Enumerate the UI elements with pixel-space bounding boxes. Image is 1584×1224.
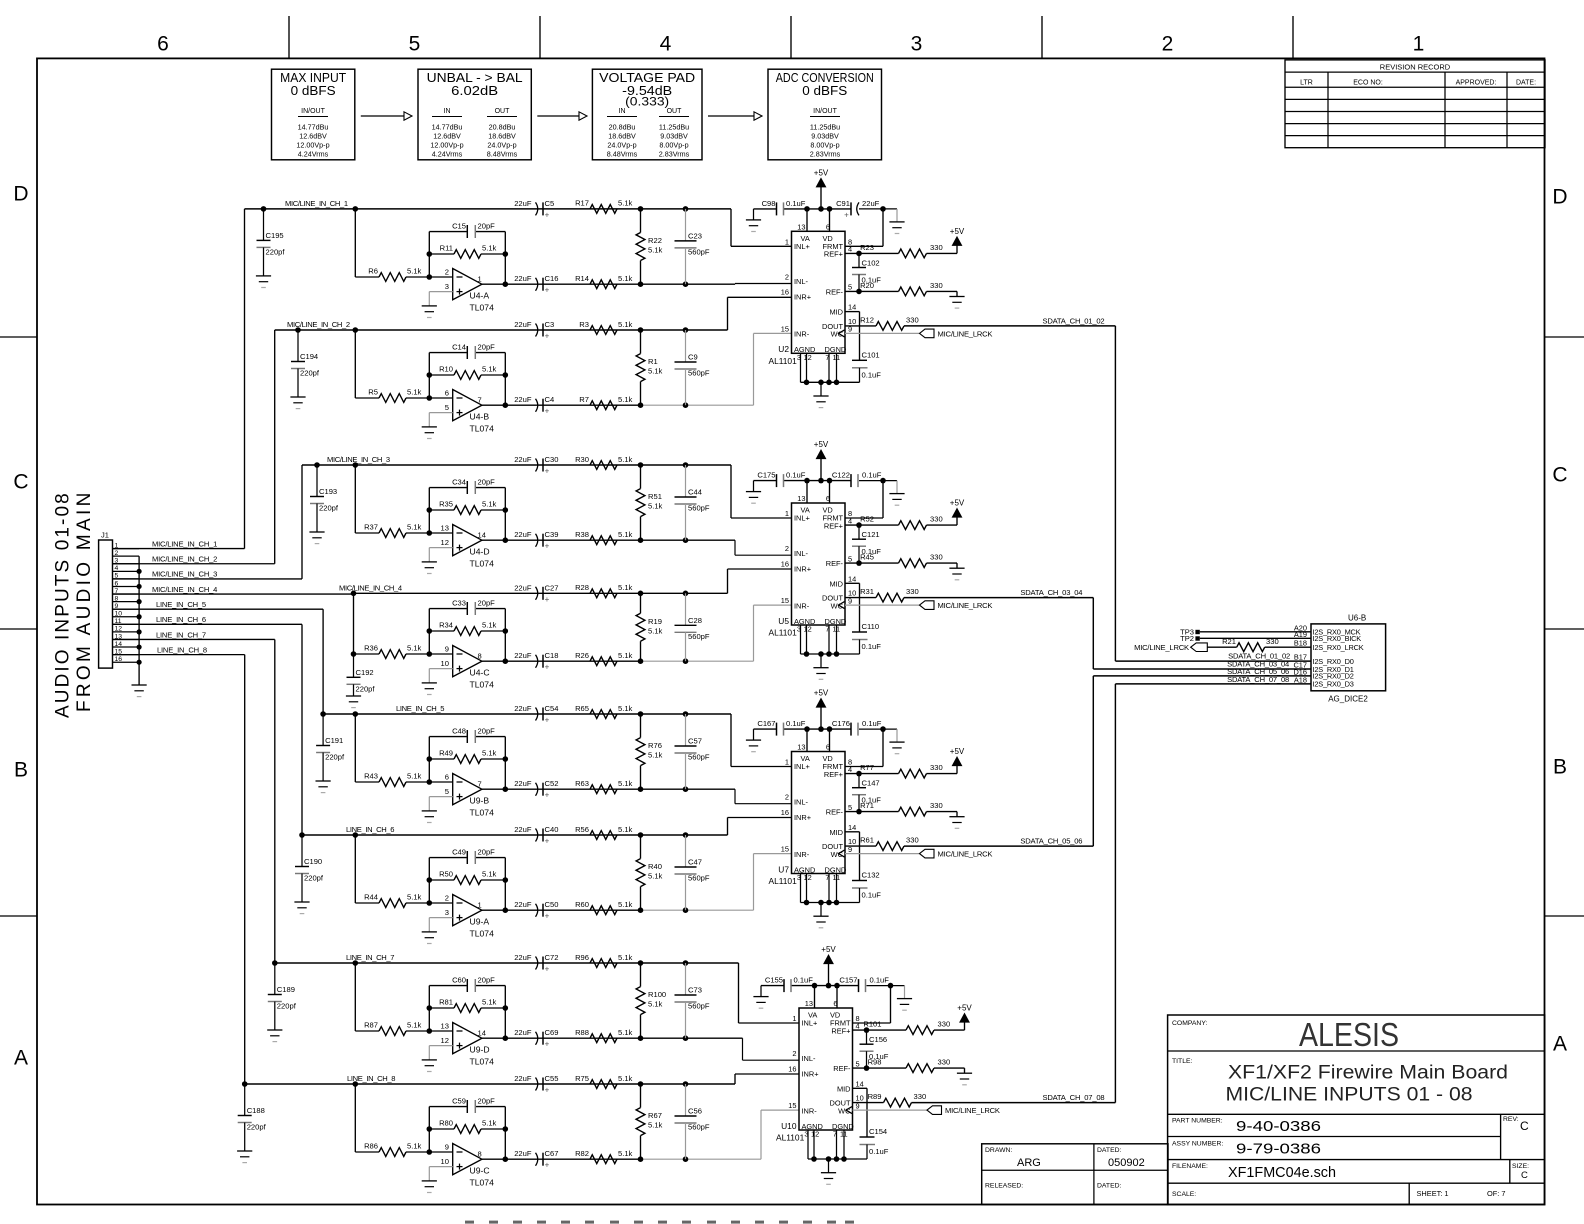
svg-text:AUDIO INPUTS 01-08: AUDIO INPUTS 01-08 — [53, 491, 74, 718]
resistor R10 5.1k — [427, 372, 433, 378]
svg-text:LINE_IN_CH_5: LINE_IN_CH_5 — [156, 600, 206, 609]
svg-text:24.0Vp-p: 24.0Vp-p — [487, 141, 516, 150]
ground at U4-C plus input — [422, 682, 437, 684]
svg-text:050902: 050902 — [1108, 1157, 1145, 1169]
capacitor C121 0.1uF — [858, 525, 860, 539]
svg-text:8.00Vp-p: 8.00Vp-p — [810, 141, 839, 150]
clock wedge WC pin U10 — [846, 1107, 852, 1114]
svg-text:U4-D: U4-D — [470, 547, 490, 557]
resistor R45 330 — [866, 562, 899, 564]
wire C98 to ground — [753, 209, 755, 220]
wire feedback loop R80 — [427, 1149, 433, 1155]
svg-text:C192: C192 — [356, 668, 374, 677]
svg-text:LINE_IN_CH_8: LINE_IN_CH_8 — [157, 645, 207, 654]
svg-text:R35: R35 — [439, 500, 453, 509]
svg-text:R7: R7 — [579, 395, 589, 404]
svg-text:C73: C73 — [688, 986, 702, 995]
capacitor C193 220pf — [316, 465, 318, 497]
svg-text:ARG: ARG — [1017, 1157, 1041, 1169]
block VOLTAGE PAD — [592, 69, 702, 160]
svg-text:COMPANY:: COMPANY: — [1172, 1020, 1207, 1027]
svg-text:C55: C55 — [545, 1074, 559, 1083]
wire SDATA_CH_05_06 into U6-B — [1093, 675, 1311, 677]
svg-text:REF-: REF- — [833, 1064, 851, 1073]
svg-text:0.1uF: 0.1uF — [862, 642, 882, 651]
svg-text:13: 13 — [797, 494, 805, 503]
wire drop LINE_IN_CH_5 to opamp — [353, 711, 359, 717]
svg-text:R14: R14 — [575, 274, 589, 283]
svg-text:DATED:: DATED: — [1097, 1147, 1122, 1154]
junction shunt bottom — [638, 402, 644, 408]
svg-text:INR-: INR- — [794, 330, 810, 339]
svg-text:R56: R56 — [575, 825, 589, 834]
wire op-amp U9-C plus input to ground — [429, 1166, 452, 1168]
svg-text:0.1uF: 0.1uF — [786, 719, 806, 728]
junction shunt bottom — [638, 658, 644, 664]
svg-text:+: + — [545, 332, 550, 341]
svg-text:14: 14 — [478, 531, 486, 540]
svg-text:3: 3 — [911, 33, 923, 56]
svg-text:C193: C193 — [319, 487, 337, 496]
svg-text:U4-A: U4-A — [470, 291, 490, 301]
ground below U5 — [813, 667, 828, 669]
svg-text:13: 13 — [441, 524, 449, 533]
wire REF- — [845, 562, 866, 564]
svg-text:6.02dB: 6.02dB — [451, 83, 498, 98]
svg-text:+: + — [545, 1161, 550, 1170]
svg-text:MIC/LINE INPUTS 01 - 08: MIC/LINE INPUTS 01 - 08 — [1226, 1085, 1473, 1106]
svg-text:C122: C122 — [832, 471, 850, 480]
svg-text:TL074: TL074 — [470, 424, 495, 434]
wire J1 pin13 net LINE_IN_CH_7 — [113, 638, 275, 640]
wire rail LINE_IN_CH_6 — [302, 834, 728, 836]
svg-text:MIC/LINE_IN_CH_1: MIC/LINE_IN_CH_1 — [152, 539, 217, 548]
+5V supply arrow — [820, 187, 822, 209]
svg-text:13: 13 — [797, 743, 805, 752]
op-amp U4-D TL074 — [453, 525, 482, 556]
svg-text:22uF: 22uF — [514, 199, 532, 208]
wire C155 to ground — [760, 986, 762, 997]
svg-text:330: 330 — [930, 763, 943, 772]
svg-text:C48: C48 — [452, 727, 466, 736]
svg-text:12.6dBV: 12.6dBV — [299, 132, 327, 141]
svg-text:5.1k: 5.1k — [648, 872, 663, 881]
capacitor C102 0.1uF — [858, 253, 860, 267]
capacitor C101 0.1uF — [852, 359, 867, 361]
svg-text:R45: R45 — [860, 553, 874, 562]
svg-text:5.1k: 5.1k — [407, 644, 422, 653]
svg-text:C5: C5 — [545, 199, 555, 208]
svg-text:20.8dBu: 20.8dBu — [489, 123, 516, 132]
capacitor C190 220pf — [301, 835, 303, 867]
capacitor C48 20pF — [466, 730, 468, 743]
wire rail MIC/LINE_IN_CH_1 — [245, 208, 732, 210]
bottom cut-off footer text marks — [465, 1221, 854, 1224]
ground at U9-A plus input — [422, 931, 437, 933]
svg-text:R101: R101 — [863, 1020, 881, 1029]
junction shunt bottom — [638, 1156, 644, 1162]
svg-text:C176: C176 — [832, 719, 850, 728]
svg-text:R43: R43 — [364, 772, 378, 781]
svg-text:C40: C40 — [545, 825, 559, 834]
svg-text:U9-D: U9-D — [470, 1045, 490, 1055]
svg-text:+5V: +5V — [814, 689, 829, 698]
wire drop MIC/LINE_IN_CH_3 to opamp — [353, 462, 359, 468]
capacitor C194 220pf — [297, 330, 299, 362]
svg-text:2: 2 — [1162, 33, 1174, 56]
wire op-amp U4-C plus input to ground — [429, 668, 452, 670]
svg-text:OUT: OUT — [667, 108, 683, 115]
svg-text:5.1k: 5.1k — [482, 749, 497, 758]
ground at U9-B plus input — [422, 810, 437, 812]
svg-text:0.1uF: 0.1uF — [862, 719, 882, 728]
svg-text:R34: R34 — [439, 621, 453, 630]
junction shunt top — [638, 327, 644, 333]
svg-text:C67: C67 — [545, 1149, 559, 1158]
svg-text:5.1k: 5.1k — [618, 953, 633, 962]
wire op-amp U4-A plus input to ground — [429, 291, 452, 293]
junction shunt bottom — [638, 1035, 644, 1041]
svg-text:C57: C57 — [688, 737, 702, 746]
svg-text:U7: U7 — [778, 864, 789, 874]
svg-text:0.1uF: 0.1uF — [862, 891, 882, 900]
svg-text:SDATA_CH_01_02: SDATA_CH_01_02 — [1042, 316, 1104, 325]
svg-text:330: 330 — [930, 243, 943, 252]
+5V at REF+ — [964, 1022, 966, 1030]
wire rail MIC/LINE_IN_CH_2 — [275, 329, 728, 331]
+5V at REF+ — [956, 766, 958, 774]
svg-text:+5V: +5V — [821, 945, 836, 954]
svg-text:560pF: 560pF — [688, 247, 710, 256]
svg-text:FROM AUDIO MAIN: FROM AUDIO MAIN — [74, 489, 95, 712]
svg-text:+: + — [545, 467, 550, 476]
svg-text:U10: U10 — [781, 1121, 797, 1131]
svg-text:220pf: 220pf — [356, 684, 376, 693]
wire DOUT — [845, 325, 876, 327]
svg-text:12.00Vp-p: 12.00Vp-p — [296, 141, 329, 150]
resistor R34 5.1k — [427, 628, 433, 634]
wire feedback loop R11 — [427, 274, 433, 280]
svg-text:REF-: REF- — [826, 287, 844, 296]
capacitor C33 20pF — [466, 602, 468, 615]
wire op-amp U4-C output — [482, 660, 641, 662]
svg-text:5.1k: 5.1k — [618, 651, 633, 660]
J1 even-pin ground bus — [138, 556, 140, 662]
junction shunt top — [638, 462, 644, 468]
svg-text:D: D — [13, 183, 28, 206]
svg-text:R31: R31 — [860, 587, 874, 596]
svg-text:220pf: 220pf — [300, 369, 320, 378]
svg-text:B18: B18 — [1294, 639, 1307, 648]
junction LINE_IN_CH_6 input cap — [299, 832, 305, 838]
svg-text:8: 8 — [478, 1150, 482, 1159]
junction shunt bottom — [638, 281, 644, 287]
svg-text:10: 10 — [441, 659, 449, 668]
svg-text:IN: IN — [619, 108, 626, 115]
svg-text:U6-B: U6-B — [1348, 614, 1366, 623]
svg-text:A18: A18 — [1294, 675, 1307, 684]
block MAX INPUT — [272, 69, 355, 160]
svg-text:I2S_RX0_BICK: I2S_RX0_BICK — [1313, 634, 1362, 643]
svg-text:C50: C50 — [545, 900, 559, 909]
svg-text:C: C — [1521, 1170, 1528, 1181]
resistor R56 5.1k — [590, 831, 617, 840]
svg-text:16: 16 — [115, 656, 123, 663]
ground below C189 — [267, 1029, 282, 1031]
svg-text:2.83Vrms: 2.83Vrms — [659, 150, 690, 159]
svg-text:C110: C110 — [862, 622, 880, 631]
svg-text:22uF: 22uF — [514, 953, 532, 962]
svg-text:5.1k: 5.1k — [618, 320, 633, 329]
ground below U7 — [813, 915, 828, 917]
svg-text:20pF: 20pF — [478, 976, 496, 985]
junction shunt top — [638, 1081, 644, 1087]
svg-text:U9-C: U9-C — [470, 1166, 490, 1176]
resistor R21 330 — [1207, 646, 1236, 648]
svg-text:11.25dBu: 11.25dBu — [659, 123, 689, 132]
resistor R96 5.1k — [590, 959, 617, 968]
capacitor C122 0.1uF — [850, 474, 852, 487]
svg-text:C154: C154 — [869, 1127, 887, 1136]
net flag MIC/LINE_LRCK — [920, 849, 935, 858]
svg-text:4.24Vrms: 4.24Vrms — [298, 150, 329, 159]
svg-text:C190: C190 — [304, 857, 322, 866]
resistor R5 5.1k — [355, 397, 379, 399]
svg-text:R3: R3 — [579, 320, 589, 329]
svg-text:16: 16 — [781, 288, 789, 297]
svg-text:+: + — [545, 407, 550, 416]
svg-text:+: + — [545, 791, 550, 800]
capacitor C34 20pF — [466, 481, 468, 494]
svg-text:4: 4 — [115, 565, 119, 572]
svg-text:330: 330 — [938, 1020, 951, 1029]
wire op-amp U9-A output — [482, 909, 641, 911]
resistor R81 5.1k — [427, 1005, 433, 1011]
svg-text:MIC/LINE_IN_CH_3: MIC/LINE_IN_CH_3 — [152, 570, 217, 579]
wire op-amp U4-A output — [482, 283, 735, 285]
svg-text:MIC/LINE_IN_CH_2: MIC/LINE_IN_CH_2 — [152, 555, 217, 564]
svg-text:B: B — [1553, 756, 1567, 779]
svg-text:U4-C: U4-C — [470, 668, 490, 678]
svg-text:330: 330 — [906, 316, 919, 325]
svg-text:MIC/LINE_IN_CH_4: MIC/LINE_IN_CH_4 — [339, 584, 402, 593]
svg-text:12: 12 — [804, 625, 812, 634]
svg-text:+5V: +5V — [957, 1004, 972, 1013]
zone ticks left — [0, 336, 37, 338]
svg-text:12: 12 — [115, 626, 123, 633]
resistor R36 5.1k — [354, 653, 380, 655]
svg-text:22uF: 22uF — [514, 455, 532, 464]
svg-text:R49: R49 — [439, 749, 453, 758]
svg-text:22uF: 22uF — [514, 583, 532, 592]
connector J1 — [99, 540, 113, 668]
svg-text:R80: R80 — [439, 1119, 453, 1128]
junction shunt top — [638, 960, 644, 966]
svg-text:2: 2 — [792, 1049, 796, 1058]
svg-text:R22: R22 — [648, 236, 662, 245]
svg-text:18.6dBV: 18.6dBV — [488, 132, 516, 141]
resistor R1 5.1k shunt — [640, 330, 642, 354]
svg-text:2: 2 — [785, 544, 789, 553]
svg-text:MIC/LINE_LRCK: MIC/LINE_LRCK — [938, 601, 993, 610]
resistor R11 5.1k — [427, 251, 433, 257]
svg-text:20pF: 20pF — [478, 343, 496, 352]
svg-text:220pf: 220pf — [247, 1123, 267, 1132]
svg-text:5.1k: 5.1k — [618, 530, 633, 539]
wire REF+ — [845, 252, 866, 254]
svg-text:AL1101: AL1101 — [769, 356, 798, 366]
svg-text:C189: C189 — [277, 985, 295, 994]
svg-text:LINE_IN_CH_6: LINE_IN_CH_6 — [346, 825, 394, 834]
svg-text:LINE_IN_CH_7: LINE_IN_CH_7 — [156, 630, 206, 639]
capacitor C155 0.1uF — [783, 979, 785, 992]
wire REF+ — [853, 1029, 874, 1031]
arrow block1-block2 — [361, 115, 404, 117]
svg-text:D: D — [1552, 186, 1567, 209]
ground at U9-D plus input — [422, 1059, 437, 1061]
svg-text:R38: R38 — [575, 530, 589, 539]
svg-text:5.1k: 5.1k — [648, 1121, 663, 1130]
svg-text:MIC/LINE_IN_CH_4: MIC/LINE_IN_CH_4 — [152, 585, 217, 594]
svg-text:0.1uF: 0.1uF — [794, 976, 814, 985]
svg-text:+5V: +5V — [814, 440, 829, 449]
svg-text:4: 4 — [660, 33, 672, 56]
wire rail MIC/LINE_IN_CH_4 — [354, 592, 728, 594]
svg-text:2: 2 — [115, 550, 119, 557]
svg-text:1: 1 — [478, 275, 482, 284]
ground at U4-D plus input — [422, 561, 437, 563]
wire drop LINE_IN_CH_7 to opamp — [353, 960, 359, 966]
svg-text:16: 16 — [788, 1064, 796, 1073]
svg-text:0.1uF: 0.1uF — [870, 976, 890, 985]
svg-text:5.1k: 5.1k — [618, 704, 633, 713]
svg-text:5.1k: 5.1k — [482, 365, 497, 374]
svg-text:0.1uF: 0.1uF — [786, 471, 806, 480]
op-amp U9-B TL074 — [453, 774, 482, 805]
svg-text:0 dBFS: 0 dBFS — [291, 83, 336, 98]
svg-text:330: 330 — [930, 515, 943, 524]
svg-text:22uF: 22uF — [514, 274, 532, 283]
svg-text:9.03dBV: 9.03dBV — [660, 132, 688, 141]
svg-text:220pf: 220pf — [266, 247, 286, 256]
ADC U10 AL1101 — [799, 1008, 853, 1130]
wire +5V bus — [754, 208, 777, 210]
svg-text:5.1k: 5.1k — [407, 267, 422, 276]
svg-text:7: 7 — [478, 396, 482, 405]
svg-text:PART NUMBER:: PART NUMBER: — [1172, 1118, 1223, 1125]
resistor R98 330 — [874, 1067, 907, 1069]
svg-text:5.1k: 5.1k — [648, 367, 663, 376]
svg-text:R5: R5 — [368, 388, 378, 397]
ground at J1 bus — [132, 684, 147, 686]
wire FRMT tie — [890, 986, 892, 1023]
wire net SDATA_CH_03_04 — [904, 597, 1093, 599]
svg-text:R89: R89 — [868, 1092, 882, 1101]
resistor R6 5.1k — [355, 276, 379, 278]
svg-text:220pf: 220pf — [319, 504, 339, 513]
svg-text:C: C — [1520, 1119, 1529, 1133]
svg-text:15: 15 — [781, 845, 789, 854]
svg-text:18.6dBV: 18.6dBV — [608, 132, 636, 141]
wire REF+ — [845, 773, 866, 775]
svg-text:22uF: 22uF — [514, 651, 532, 660]
svg-text:5.1k: 5.1k — [482, 621, 497, 630]
svg-text:C52: C52 — [545, 779, 559, 788]
ground at REF- — [949, 296, 964, 298]
svg-text:(0.333): (0.333) — [625, 97, 669, 109]
wire MID — [845, 311, 860, 313]
svg-text:1: 1 — [478, 901, 482, 910]
op-amp U4-C TL074 — [453, 646, 482, 677]
svg-text:5: 5 — [445, 787, 449, 796]
svg-text:FILENAME:: FILENAME: — [1172, 1163, 1208, 1170]
svg-text:+: + — [545, 1040, 550, 1049]
zone ticks top — [288, 16, 290, 58]
capacitor C157 0.1uF — [858, 979, 860, 992]
junction MIC/LINE_IN_CH_3 input cap — [314, 462, 320, 468]
svg-text:+: + — [545, 663, 550, 672]
resistor R40 5.1k shunt — [640, 835, 642, 859]
svg-text:6: 6 — [445, 773, 449, 782]
svg-text:MIC/LINE_LRCK: MIC/LINE_LRCK — [1134, 643, 1189, 652]
junction MIC/LINE_IN_CH_1 input cap — [261, 206, 267, 212]
svg-text:9.03dBV: 9.03dBV — [811, 132, 839, 141]
capacitor C176 0.1uF — [850, 723, 852, 736]
svg-text:20.8dBu: 20.8dBu — [609, 123, 636, 132]
svg-text:14: 14 — [856, 1079, 864, 1088]
capacitor C60 20pF — [466, 979, 468, 992]
resistor R65 5.1k — [590, 710, 617, 719]
capacitor C98 0.1uF — [776, 202, 778, 215]
capacitor C175 0.1uF — [776, 474, 778, 487]
op-amp U9-A TL074 — [453, 895, 482, 926]
svg-text:+5V: +5V — [950, 499, 965, 508]
resistor R61 330 — [876, 842, 904, 851]
svg-text:C191: C191 — [325, 736, 343, 745]
svg-text:20pF: 20pF — [478, 848, 496, 857]
svg-text:TL074: TL074 — [470, 680, 495, 690]
svg-text:6: 6 — [157, 33, 169, 56]
svg-text:5.1k: 5.1k — [618, 455, 633, 464]
svg-text:22uF: 22uF — [514, 320, 532, 329]
svg-text:REF-: REF- — [826, 808, 844, 817]
resistor R88 5.1k — [590, 1034, 617, 1043]
wire +5V bus — [761, 985, 784, 987]
svg-text:REF+: REF+ — [831, 1026, 850, 1035]
svg-text:5.1k: 5.1k — [407, 388, 422, 397]
wire J1 pin11 net LINE_IN_CH_6 — [113, 623, 303, 625]
capacitor C15 20pF — [466, 225, 468, 238]
svg-text:INL-: INL- — [794, 277, 809, 286]
svg-text:INL-: INL- — [802, 1054, 817, 1063]
svg-text:14: 14 — [478, 1029, 486, 1038]
svg-text:5.1k: 5.1k — [618, 583, 633, 592]
wire J1 pin1 net MIC/LINE_IN_CH_1 — [113, 548, 245, 550]
resistor R7 5.1k — [590, 401, 617, 410]
junction MIC/LINE_IN_CH_2 input cap — [295, 327, 301, 333]
svg-text:DATE:: DATE: — [1516, 80, 1536, 87]
capacitor C191 220pf — [322, 714, 324, 746]
IC U6-B AG_DICE2 — [1311, 624, 1386, 691]
resistor R49 5.1k — [427, 756, 433, 762]
svg-text:INR+: INR+ — [802, 1069, 819, 1078]
ground below U2 — [813, 395, 828, 397]
svg-text:560pF: 560pF — [688, 632, 710, 641]
op-amp U4-A TL074 — [453, 269, 482, 300]
svg-text:3: 3 — [445, 282, 449, 291]
svg-text:MID: MID — [829, 828, 843, 837]
wire FRMT tie — [882, 729, 884, 766]
